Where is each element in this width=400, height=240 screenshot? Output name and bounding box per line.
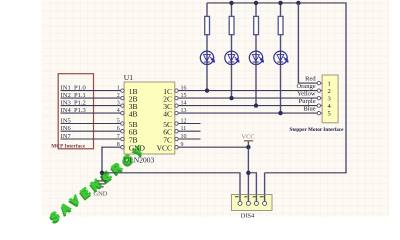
power VCC symbol: [244, 141, 253, 147]
resistor R2: [229, 3, 234, 35]
junction D1-wire: [205, 88, 209, 92]
wire pin11 stub: [178, 130, 200, 132]
svg-text:15: 15: [181, 93, 187, 99]
U1 right pin circles: [175, 89, 178, 149]
junction VCC-pin9: [246, 145, 250, 149]
svg-text:Yellow: Yellow: [297, 91, 316, 98]
wire 4C to Blue pin: [178, 112, 317, 114]
wire IN6: [61, 130, 121, 132]
U1 left pin circles: [121, 89, 124, 149]
LED D4: [274, 35, 289, 113]
svg-text:U1: U1: [124, 73, 133, 82]
connector DIS4: [232, 195, 273, 211]
svg-text:16: 16: [181, 85, 187, 91]
LED D3: [249, 35, 264, 106]
wire VCC top bus: [207, 2, 347, 4]
wire GND rail: [102, 172, 241, 174]
svg-text:Blue: Blue: [303, 106, 315, 113]
junction bus-R4: [278, 1, 282, 5]
wire IN4: [61, 112, 121, 114]
U1 right pin numbers 16-9: [181, 85, 187, 148]
LED D2: [225, 35, 240, 98]
wire IN5: [61, 123, 121, 125]
wire 2C to Yellow pin: [178, 97, 317, 99]
svg-text:14: 14: [181, 100, 187, 106]
wire 1C to Orange pin: [178, 90, 317, 92]
wire pin9 VCC: [178, 146, 248, 148]
svg-text:IN2 P1.1: IN2 P1.1: [61, 92, 86, 99]
svg-text:Stepper Motor Interface: Stepper Motor Interface: [290, 127, 345, 133]
U1 left pin labels: [129, 87, 146, 153]
U1 left pin numbers 1-8: [117, 85, 120, 148]
svg-text:IN1 P1.0: IN1 P1.0: [61, 84, 86, 91]
wire pin12 stub: [178, 123, 200, 125]
wire IN2: [61, 97, 121, 99]
op-amp U1 (ULN2003 driver IC) body: [124, 73, 175, 164]
ground symbol: [97, 173, 107, 187]
wire DIS4 pin3 stub: [248, 172, 257, 174]
junction D2-wire: [229, 96, 233, 100]
junction GND: [100, 171, 104, 175]
svg-text:VCC: VCC: [241, 134, 254, 141]
svg-text:Purple: Purple: [299, 98, 316, 105]
connector MCP Interface: [58, 74, 93, 149]
svg-text:MCP Interface: MCP Interface: [51, 143, 85, 149]
wire 3C to Purple pin: [178, 105, 317, 107]
svg-text:DIS4: DIS4: [241, 212, 255, 219]
wire DIS4 pin4 to right rail: [264, 173, 266, 202]
svg-text:Red: Red: [305, 76, 316, 83]
resistor R4: [278, 3, 283, 35]
svg-text:4C: 4C: [163, 110, 172, 119]
svg-text:IN3 P1.2: IN3 P1.2: [61, 99, 86, 106]
wire red net vertical: [297, 3, 299, 83]
junction bus-red wire: [296, 1, 300, 5]
watermark SAVENERGY: [46, 140, 151, 227]
LED D1: [200, 35, 215, 91]
schematic sheet: [42, 0, 389, 217]
wire pin10 stub: [178, 138, 200, 140]
svg-text:IN5: IN5: [61, 117, 71, 124]
connector Stepper Motor Interface: [317, 75, 338, 123]
svg-text:5: 5: [328, 110, 331, 117]
resistor R1: [205, 3, 210, 35]
resistor R3: [254, 3, 259, 35]
wire IN1: [61, 90, 121, 92]
wire right-side VCC vertical: [345, 3, 347, 174]
svg-text:Orange: Orange: [296, 83, 315, 90]
junction D3-wire: [254, 103, 258, 107]
svg-text:4B: 4B: [129, 110, 138, 119]
wire VCC to DIS4 pin2: [247, 147, 249, 201]
U1 right pin labels: [157, 87, 172, 153]
junction D4-wire: [278, 111, 282, 115]
wire IN7: [61, 138, 121, 140]
svg-text:VCC: VCC: [157, 144, 172, 153]
svg-text:3: 3: [328, 95, 331, 102]
junction bus-R2: [229, 1, 233, 5]
svg-text:13: 13: [181, 108, 187, 114]
wire GND pin8: [101, 146, 120, 148]
wire IN3: [61, 105, 121, 107]
svg-text:IN4 P1.3: IN4 P1.3: [61, 107, 86, 114]
junction bus-R3: [254, 1, 258, 5]
svg-text:2: 2: [328, 88, 331, 95]
svg-text:1: 1: [328, 80, 331, 87]
svg-text:IN7: IN7: [61, 133, 72, 140]
junction VCC-rail: [246, 171, 250, 175]
svg-text:IN6: IN6: [61, 125, 72, 132]
